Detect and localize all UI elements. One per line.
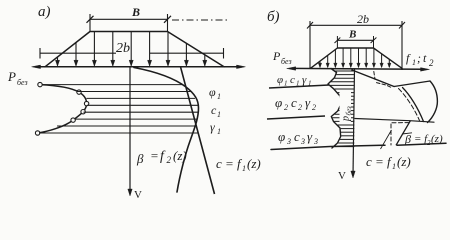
svg-text:1: 1	[217, 127, 221, 136]
svg-text:β: β	[136, 151, 144, 166]
svg-text:;: ;	[417, 51, 421, 65]
svg-text:γ: γ	[305, 95, 311, 110]
svg-text:1: 1	[217, 110, 221, 119]
leader line to c=f1 label (fig b)	[381, 130, 392, 149]
svg-text:3: 3	[286, 137, 291, 146]
svg-text:б): б)	[267, 9, 280, 25]
solid step slant layer3 (fig b)	[396, 121, 411, 146]
svg-text:(z): (z)	[397, 154, 411, 169]
label beta=f2(z) (fig b)	[402, 133, 412, 134]
bulge curve layer2 right (fig b)	[428, 81, 438, 123]
layer boundary 1 left (fig b)	[269, 85, 329, 88]
svg-text:c: c	[290, 74, 295, 86]
svg-text:2: 2	[429, 58, 434, 68]
svg-text:В: В	[131, 5, 140, 19]
svg-text:без: без	[281, 57, 292, 66]
dashed jog layer1 (fig b)	[374, 72, 375, 80]
svg-text:c: c	[291, 95, 297, 110]
layer boundary 2 left (fig b)	[267, 116, 325, 119]
boundary 1 right rising (fig b)	[394, 81, 430, 87]
layer boundary 3 (fig b)	[271, 145, 385, 149]
svg-text:1: 1	[242, 164, 246, 173]
centerline dash-dot	[172, 19, 229, 21]
svg-text:3: 3	[300, 137, 305, 146]
dashed step rectangle layer3 (fig b)	[390, 124, 392, 145]
svg-text:В: В	[348, 29, 356, 41]
B dimension line (fig b)	[337, 39, 373, 41]
solid step curve layer2 (fig b)	[403, 88, 424, 122]
curve beta=f2(z) (fig a)	[134, 68, 199, 193]
svg-text:а): а)	[38, 4, 51, 20]
svg-text:γ: γ	[210, 120, 215, 134]
svg-text:c = f: c = f	[366, 154, 393, 169]
svg-text:β: β	[404, 132, 411, 146]
ground baseline (fig b)	[291, 67, 425, 70]
svg-text:φ: φ	[278, 129, 285, 144]
svg-text:без: без	[17, 78, 28, 87]
svg-text:φ: φ	[209, 85, 216, 99]
svg-text:γ: γ	[302, 74, 307, 86]
embankment trapezoid (fig a)	[45, 32, 224, 67]
ground baseline (fig a)	[36, 66, 241, 68]
svg-text:2b: 2b	[116, 41, 130, 56]
svg-text:Р: Р	[7, 69, 16, 84]
svg-text:2b: 2b	[357, 12, 369, 26]
horizontal hatch lines (fig a)	[43, 84, 182, 86]
line c=f1(z) (fig a)	[181, 67, 215, 194]
layer boundary 2 right (fig b)	[355, 119, 434, 123]
svg-text:2: 2	[167, 155, 172, 165]
svg-text:1: 1	[284, 80, 288, 88]
svg-text:2: 2	[312, 103, 316, 112]
svg-text:c: c	[294, 129, 300, 144]
svg-text:(z): (z)	[431, 133, 443, 145]
2b dimension line (fig a)	[40, 52, 116, 54]
svg-text:2: 2	[284, 103, 288, 112]
2b dimension line (fig b)	[310, 24, 402, 26]
svg-text:Р: Р	[272, 49, 281, 63]
dashed step curve layer2 (fig b)	[399, 89, 420, 121]
svg-text:3: 3	[313, 137, 318, 146]
svg-text:γ: γ	[307, 129, 313, 144]
svg-text:=: =	[150, 148, 159, 163]
svg-text:(z): (z)	[173, 148, 187, 163]
distributed load arrows (fig b)	[319, 61, 321, 67]
dimension line B (fig a)	[90, 18, 168, 20]
label p_bez rotated (fig b)	[340, 91, 352, 123]
left pressure bulb curve with node circles (fig a)	[38, 85, 87, 133]
svg-text:1: 1	[392, 162, 396, 171]
step slant layer1 (fig b)	[352, 70, 394, 87]
hatch lines of p_bez diagram (fig b)	[335, 70, 354, 72]
svg-text:φ: φ	[277, 74, 283, 86]
svg-text:2: 2	[298, 103, 302, 112]
svg-text:φ: φ	[275, 95, 282, 110]
svg-text:V: V	[134, 189, 142, 201]
distributed load arrows (fig a)	[57, 57, 59, 66]
vertical axis V (fig b)	[353, 68, 355, 176]
svg-text:1: 1	[412, 58, 416, 67]
svg-text:c = f: c = f	[216, 156, 243, 171]
svg-text:V: V	[338, 170, 346, 182]
svg-text:(z): (z)	[247, 156, 261, 171]
embankment trapezoid (fig b)	[311, 48, 403, 68]
vertical axis V (fig a)	[129, 67, 131, 195]
svg-text:1: 1	[217, 92, 221, 101]
p_bez profile wavy curve (fig b)	[328, 69, 341, 149]
